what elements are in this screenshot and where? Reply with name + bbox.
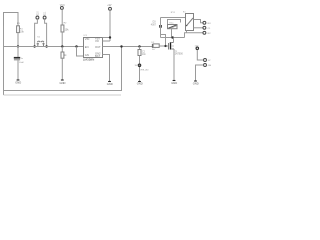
power flag node <box>138 64 141 67</box>
svg-text:GN: GN <box>85 53 89 57</box>
IC pin wire to ground <box>103 55 110 82</box>
wire P4 riser to IC pins <box>109 10 111 41</box>
wire C1 to ground <box>17 60 19 80</box>
wire D2 to gate <box>159 45 169 47</box>
svg-text:BAT: BAT <box>95 54 100 58</box>
power flag node <box>196 47 199 50</box>
wire left bus + bottom bus + riser to gate net <box>4 26 122 91</box>
relay pin wire 2 <box>194 27 203 29</box>
svg-text:VRE_L80: VRE_L80 <box>140 69 148 71</box>
terminal P2 <box>43 16 46 19</box>
svg-text:NO: NO <box>208 23 212 25</box>
resistor R1 <box>17 26 20 33</box>
svg-text:EN: EN <box>85 45 89 49</box>
wire bottom rail to NC terminal <box>185 33 203 38</box>
node junction dot (drain) <box>171 36 174 39</box>
svg-text:GND: GND <box>15 81 21 85</box>
capacitor C1 <box>14 57 20 59</box>
svg-text:GND: GND <box>137 82 143 86</box>
flyback diode D3 (dark) <box>159 25 162 28</box>
wire R3 to ground <box>61 58 63 80</box>
wire dot to C2 <box>139 47 141 50</box>
terminal C <box>203 26 206 29</box>
relay switch lever <box>186 18 193 26</box>
relay bottom rail wire <box>161 37 185 39</box>
node junction dot (IC left branch) <box>75 45 77 47</box>
wire P1 to bus <box>35 19 38 46</box>
node junction dot (gate net) <box>164 45 166 47</box>
node junction dot (riser from bottom bus) <box>120 45 122 47</box>
relay pin wire 1 <box>194 20 203 23</box>
wire coil to bottom rail <box>171 29 173 38</box>
wire R2 to bus <box>61 32 63 47</box>
wire drain riser <box>173 38 175 43</box>
svg-text:GND: GND <box>60 81 66 85</box>
terminal NO <box>203 21 206 24</box>
wire power flag to terminal <box>197 50 203 60</box>
svg-text:LM358N: LM358N <box>83 58 94 62</box>
svg-text:NC: NC <box>208 33 212 35</box>
relay inner rail wire <box>168 20 181 25</box>
svg-text:+9V: +9V <box>107 4 112 7</box>
left box J1 (open bottom) <box>4 13 19 26</box>
node junction dot <box>33 45 35 47</box>
node junction dot <box>45 45 47 47</box>
main bus wire <box>4 46 84 48</box>
wire power branch to gate net <box>161 35 166 47</box>
wire P2 to bus <box>45 19 47 46</box>
svg-text:OUT: OUT <box>95 45 101 49</box>
node junction dot (C2 branch) <box>138 45 140 47</box>
wire dot to resistor R3 <box>61 47 63 53</box>
IC pin wire VCC <box>103 37 111 39</box>
relay switch box K1 <box>186 14 194 31</box>
terminal NC <box>203 31 206 34</box>
svg-text:4007: 4007 <box>151 25 157 27</box>
svg-text:2N7000: 2N7000 <box>175 54 184 56</box>
wire diode branch vertical <box>160 18 162 38</box>
terminal P4 <box>109 7 112 10</box>
wire relay box bottom stub <box>186 31 188 33</box>
resistor R3 <box>61 52 64 58</box>
ground GND3 <box>107 82 113 87</box>
wire dot to capacitor C1 <box>17 47 19 58</box>
node junction dot <box>109 36 111 38</box>
terminal P1 <box>36 16 39 19</box>
svg-text:VIN: VIN <box>85 37 90 41</box>
ground GND6 <box>193 81 199 86</box>
resistor R2 <box>61 25 64 32</box>
wire R1 to bus <box>17 33 19 47</box>
transistor Q1 (MOSFET) <box>169 42 175 49</box>
terminal +12V <box>204 59 207 62</box>
relay top rail wire <box>161 17 186 19</box>
IC out wire to gate net <box>103 46 153 48</box>
ground GND4 <box>137 82 143 86</box>
capacitor C2 <box>138 50 141 56</box>
wire branch to IC pin2 <box>77 47 84 57</box>
svg-text:VO: VO <box>95 39 99 43</box>
svg-text:GND: GND <box>171 81 177 85</box>
wire C2 to ground <box>139 56 141 82</box>
svg-text:D10: D10 <box>37 11 39 16</box>
relay coil <box>168 25 178 29</box>
terminal GNDin <box>204 64 207 67</box>
ground GND1 <box>15 80 21 85</box>
wire P3 to resistor R2 <box>61 9 63 25</box>
svg-text:GN: GN <box>208 65 212 67</box>
wire source to ground <box>173 49 175 81</box>
diode D2 (gate series) <box>152 44 159 48</box>
IC pin wire EN <box>103 40 111 42</box>
op-amp IC U1 box <box>84 38 103 58</box>
pushbutton S1 <box>37 41 45 46</box>
ground GND5 <box>171 81 177 86</box>
ground GND2 <box>60 80 66 85</box>
terminal P3 <box>60 6 63 9</box>
svg-text:10uF: 10uF <box>19 62 25 64</box>
svg-text:GND: GND <box>107 82 113 86</box>
node junction dot <box>61 45 63 47</box>
node junction dot <box>17 45 19 47</box>
wire second bottom run (faint) <box>3 91 5 96</box>
wire GNDin terminal to ground <box>196 65 204 81</box>
svg-text:GND: GND <box>193 82 199 86</box>
